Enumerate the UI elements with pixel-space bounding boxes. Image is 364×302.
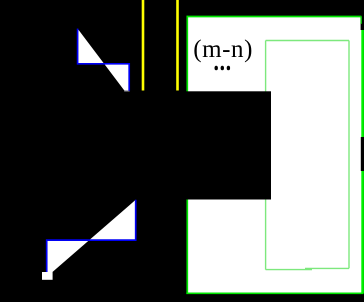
ellipsis dot 2	[221, 66, 224, 71]
lower bowtie blue stroke	[47, 200, 136, 277]
svg-text:(m-n): (m-n)	[193, 36, 253, 63]
outer green border: right edge upper stub	[360, 17, 362, 25]
black interruption on right edge	[361, 137, 364, 171]
ellipsis dot 3	[227, 66, 230, 71]
inner green rectangle: right edge	[348, 41, 350, 269]
top bowtie blue stroke	[78, 29, 130, 91]
outer green border: bottom edge	[186, 292, 363, 294]
inner green rectangle: left edge	[265, 41, 267, 270]
outer green border: right edge bright segment lower	[361, 171, 364, 293]
top bowtie faint bottom segment	[124, 90, 129, 92]
top bowtie fill	[78, 29, 130, 91]
black notch rectangle	[178, 91, 271, 199]
inner green rectangle: top edge	[266, 40, 349, 42]
label (m-n)	[0, 0, 1, 1]
yellow line 2	[176, 0, 179, 91]
outer green border: left edge	[186, 16, 188, 294]
outer green border: right edge bright segment upper	[361, 30, 364, 137]
lower bowtie fill	[47, 200, 136, 277]
inner green rectangle: bottom edge lower segment	[266, 269, 312, 271]
outer green border: top edge	[187, 16, 362, 18]
black gap in right edge	[361, 24, 364, 30]
white square vertex marker	[42, 272, 53, 280]
yellow line 1	[142, 0, 145, 91]
ellipsis dot 1	[215, 66, 218, 71]
inner green rectangle: bottom edge upper segment	[305, 267, 349, 269]
outer white block fill	[187, 17, 361, 293]
